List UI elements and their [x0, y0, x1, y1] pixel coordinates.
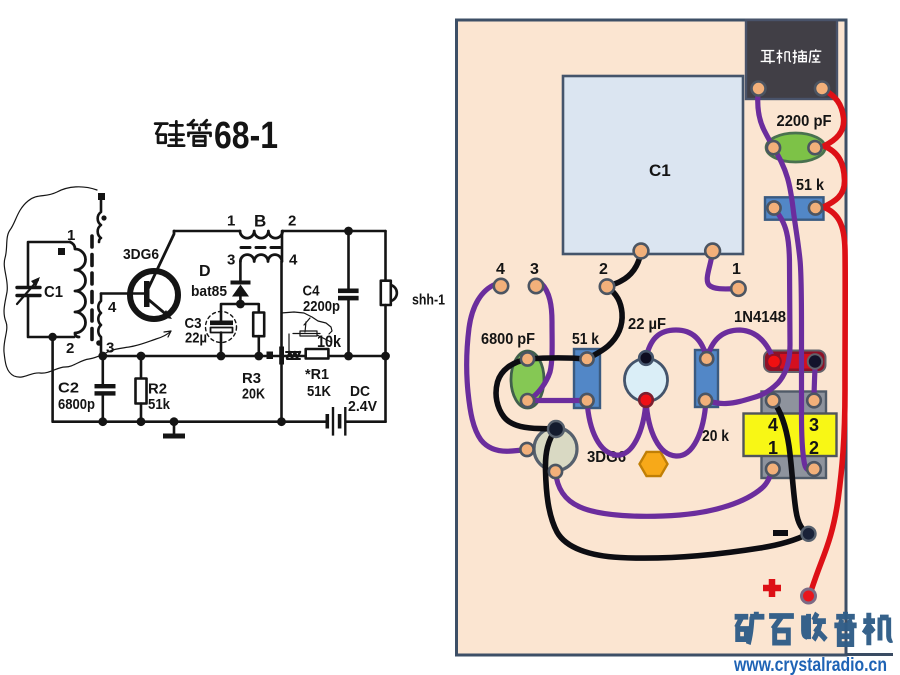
- svg-text:22 µF: 22 µF: [628, 316, 666, 333]
- minus pin: [802, 527, 816, 541]
- hex nut: [640, 452, 668, 476]
- left drop wire: [53, 337, 326, 422]
- svg-text:51 k: 51 k: [796, 177, 824, 194]
- wire purple 3DG6bot sweep to B1: [556, 469, 773, 516]
- resistor 20k body: [695, 350, 718, 407]
- 51k lower pin top: [580, 352, 593, 365]
- plus pin: [802, 589, 816, 603]
- svg-text:3: 3: [530, 261, 539, 278]
- 20k pin top: [700, 352, 713, 365]
- transformer yellow label: [744, 414, 837, 457]
- transformer B core dashes: [241, 246, 282, 249]
- resistor R1: [306, 349, 329, 359]
- watermark underline: [846, 653, 893, 656]
- junction dot R2 bottom: [137, 417, 146, 426]
- svg-text:bat85: bat85: [191, 283, 227, 300]
- wire purple 22uF to 20kbot: [646, 400, 706, 456]
- junction dot node2: [48, 333, 56, 341]
- junction dot diode node: [236, 300, 245, 309]
- wire node to R3: [240, 304, 258, 313]
- capacitor 22uF body: [625, 359, 668, 402]
- variable capacitor arrow: [17, 280, 38, 304]
- wire purple 20ktop to 1N4148: [707, 330, 774, 361]
- junction dot R2 top: [137, 352, 146, 361]
- earphone shh-1: [384, 231, 387, 281]
- freehand leader line: [288, 334, 290, 355]
- label minus: [773, 530, 788, 536]
- small square marker: [267, 352, 274, 360]
- svg-text:C1: C1: [44, 284, 63, 301]
- 2200pF pin left: [767, 141, 780, 154]
- wire red main: [811, 89, 845, 592]
- freehand blob outline: [4, 187, 171, 377]
- battery DC 2.4V: [326, 414, 330, 429]
- capacitor 2200pF body: [766, 133, 825, 162]
- tuning capacitor C1: [563, 76, 743, 254]
- svg-text:*R1: *R1: [305, 366, 329, 383]
- svg-text:1: 1: [768, 438, 778, 458]
- C1 pin left: [634, 244, 649, 259]
- pin 4: [494, 279, 508, 293]
- wire black 6800top to 3DG6: [496, 359, 556, 429]
- wire diode to node: [239, 297, 242, 305]
- svg-text:R3: R3: [242, 370, 261, 387]
- pin 3: [529, 279, 543, 293]
- junction dot node3: [98, 352, 107, 361]
- primary winding: [70, 242, 85, 337]
- svg-text:www.crystalradio.cn: www.crystalradio.cn: [733, 655, 887, 675]
- svg-text:6800p: 6800p: [58, 396, 95, 413]
- svg-text:C2: C2: [58, 380, 79, 397]
- resistor R2: [140, 356, 143, 379]
- resistor 51k upper body: [765, 197, 824, 219]
- jack pin right: [815, 82, 829, 96]
- 51k upper pin right: [809, 201, 822, 214]
- transformer pin BL: [766, 462, 780, 476]
- 51k lower pin bottom: [580, 394, 593, 407]
- wire black 51ktop to 6800top: [528, 358, 588, 359]
- transformer B primary winding: [240, 231, 283, 238]
- wire node to C3: [221, 304, 240, 321]
- svg-text:22µ: 22µ: [185, 330, 207, 347]
- junction dot C4 rail: [344, 352, 353, 361]
- ground: [173, 422, 176, 434]
- diode D cathode bar: [231, 281, 251, 285]
- transformer pin BR: [807, 462, 821, 476]
- wire purple 51kbot to 22uF: [587, 401, 646, 456]
- LAYOUT-RIGHT: [457, 20, 894, 675]
- svg-text:20 k: 20 k: [702, 428, 729, 445]
- svg-text:2: 2: [66, 340, 74, 357]
- svg-text:4: 4: [496, 261, 505, 278]
- wire black pin2 to 51k: [587, 287, 622, 359]
- junction dot C2 bottom: [98, 417, 107, 426]
- svg-text:51k: 51k: [148, 396, 171, 413]
- wire C3 to rail: [220, 333, 223, 357]
- svg-text:shh-1: shh-1: [412, 292, 445, 309]
- wire battery to phone leg: [347, 420, 386, 423]
- transformer pin TR: [807, 394, 821, 408]
- resistor 51k lower body: [574, 349, 600, 408]
- capacitor C3 dashed circle: [206, 312, 237, 343]
- 6800pF pin top: [521, 352, 534, 365]
- dashed ferrite core: [90, 236, 94, 341]
- C1 loop left vertical + box: [28, 242, 74, 337]
- svg-text:2: 2: [599, 261, 608, 278]
- svg-text:4: 4: [289, 252, 298, 269]
- antenna winding: [98, 200, 101, 242]
- thick crossing bar: [279, 347, 284, 365]
- wire B pin3 down: [239, 262, 242, 281]
- wire B pin2 to rail: [282, 231, 386, 262]
- earphone jack box: [746, 20, 837, 99]
- freehand trimmer doodle: [293, 318, 331, 342]
- label plus: [763, 579, 781, 597]
- diode 1N4148 body: [764, 351, 826, 373]
- svg-text:51 k: 51 k: [572, 331, 599, 348]
- wire R3 to rail: [257, 336, 260, 356]
- resistor R3: [253, 313, 264, 337]
- wire purple 6800bot to 51kbot: [528, 398, 588, 403]
- 3DG6 pin bottom: [549, 465, 562, 478]
- scribble marker: [287, 352, 300, 358]
- svg-text:1: 1: [732, 261, 741, 278]
- svg-text:2: 2: [809, 438, 819, 458]
- junction dot C3 rail: [217, 352, 226, 361]
- svg-text:3DG6: 3DG6: [123, 246, 159, 263]
- wire purple 1N4148 to B3: [814, 368, 815, 401]
- 20k pin bottom: [699, 394, 712, 407]
- svg-text:3: 3: [106, 340, 114, 357]
- base wire: [101, 292, 144, 295]
- wire purple R1left down: [706, 208, 791, 404]
- wire purple pin3 to 6800 bottom: [528, 283, 553, 401]
- svg-text:4: 4: [108, 299, 117, 316]
- phase square near pin1: [58, 248, 65, 255]
- diode D triangle: [232, 285, 249, 297]
- 3DG6 pin top black: [548, 421, 564, 437]
- pin 2: [600, 279, 614, 293]
- capacitor C4: [347, 231, 350, 289]
- capacitor C2: [102, 356, 105, 384]
- svg-text:1: 1: [227, 213, 235, 230]
- board panel: [457, 20, 847, 655]
- svg-text:2200p: 2200p: [303, 298, 340, 315]
- wire purple jack to B2: [758, 89, 814, 471]
- svg-text:68-1: 68-1: [214, 115, 278, 157]
- svg-text:4: 4: [768, 415, 778, 435]
- transistor 3DG6 body: [534, 428, 577, 471]
- svg-text:B: B: [254, 212, 266, 231]
- junction dot R3 rail: [254, 352, 263, 361]
- svg-text:3: 3: [809, 415, 819, 435]
- transistor Q1 circle: [130, 271, 178, 319]
- C1 pin right: [705, 244, 720, 259]
- junction dot B4 bottom: [277, 417, 286, 426]
- 2200pF pin right: [808, 141, 821, 154]
- wire black C1 to pin2: [607, 251, 641, 287]
- antenna pad: [98, 193, 105, 200]
- wire purple C1 to pin1: [707, 251, 738, 289]
- junction dot C4 top: [344, 227, 353, 236]
- svg-text:C1: C1: [649, 161, 671, 180]
- jack label 耳机插座: [761, 49, 822, 63]
- svg-text:20K: 20K: [242, 386, 265, 403]
- 22uF pin top black: [639, 351, 653, 365]
- 1N4148 pin left red: [767, 355, 781, 369]
- antenna winding dot: [101, 215, 106, 220]
- transistor base bar: [144, 281, 150, 307]
- phase dot near pin4: [96, 340, 102, 346]
- jack pin left: [752, 82, 766, 96]
- 51k upper pin left: [767, 201, 780, 214]
- pin 1: [731, 281, 745, 295]
- svg-text:2200 pF: 2200 pF: [777, 113, 832, 130]
- freehand C4 bracket: [281, 312, 332, 334]
- transformer pin TL: [766, 394, 780, 408]
- wire purple pin4 to 3DG6: [467, 284, 527, 451]
- svg-text:R2: R2: [148, 381, 167, 398]
- 22uF pin bottom red: [639, 393, 653, 407]
- 1N4148 pin right black: [808, 354, 822, 368]
- watermark 矿石收音机: [735, 612, 892, 645]
- svg-text:6800 pF: 6800 pF: [481, 331, 535, 348]
- 3DG6 pin left: [520, 443, 533, 456]
- SCHEMATIC-LEFT: [4, 115, 445, 439]
- 6800pF pin bottom: [521, 394, 534, 407]
- junction dot phone rail: [381, 352, 390, 361]
- wire black 3DG6 down sweep to minus: [545, 429, 808, 558]
- svg-text:51K: 51K: [307, 383, 331, 400]
- title 硅管68-1: [155, 115, 278, 157]
- capacitor C3 plates: [210, 321, 233, 326]
- svg-text:C4: C4: [303, 283, 321, 300]
- svg-text:2: 2: [288, 213, 296, 230]
- wire black B4 to minus: [773, 401, 809, 534]
- svg-text:1N4148: 1N4148: [734, 309, 786, 326]
- svg-text:D: D: [199, 263, 211, 280]
- top rail: [174, 230, 240, 233]
- secondary winding: [98, 294, 101, 357]
- capacitor 6800pF body: [511, 351, 544, 408]
- transformer gray body: [762, 392, 827, 479]
- freehand arrow tip: [164, 331, 171, 337]
- svg-text:1: 1: [67, 227, 75, 244]
- mid rail: [103, 355, 386, 358]
- svg-text:3: 3: [227, 252, 235, 269]
- wire purple 22uFtop to 20ktop: [646, 330, 707, 359]
- junction dot gnd: [170, 417, 179, 426]
- variable capacitor C1 plates: [17, 288, 40, 296]
- emitter lead with arrow: [149, 300, 168, 316]
- svg-text:2.4V: 2.4V: [348, 398, 377, 415]
- B pin4 leg: [280, 262, 283, 422]
- transformer B secondary winding: [240, 255, 281, 262]
- collector lead: [148, 231, 174, 289]
